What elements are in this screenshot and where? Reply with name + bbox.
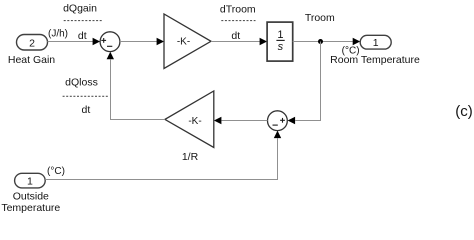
wire port2 to sum1 <box>48 41 94 43</box>
svg-text:dt: dt <box>82 104 91 116</box>
wire integrator to outport 1 <box>293 41 353 43</box>
svg-text:dQloss: dQloss <box>65 76 98 88</box>
wire Troom junction down to sum2 <box>295 42 320 121</box>
outport 1 (Room Temperature) <box>360 35 391 49</box>
svg-text:dt: dt <box>231 30 240 42</box>
arrowhead into sum2 bottom <box>274 131 281 139</box>
svg-text:Troom: Troom <box>305 12 335 24</box>
svg-text:1: 1 <box>373 37 379 49</box>
label dQloss/dt <box>63 76 108 116</box>
svg-text:dt: dt <box>78 30 87 42</box>
svg-text:(J/h): (J/h) <box>48 29 68 40</box>
inport 2 (Heat Gain) <box>17 35 48 51</box>
svg-text:Heat Gain: Heat Gain <box>8 54 55 66</box>
arrowhead into outport <box>353 38 361 45</box>
gain block G2 (-K-, 1/R) <box>165 91 214 148</box>
arrowhead into integrator <box>260 38 268 45</box>
inport 1 (Outside Temperature) <box>15 173 46 188</box>
integrator U1 (1/s) <box>267 22 293 61</box>
gain block G1 (-K-) <box>164 14 211 69</box>
wire outside temp to sum2 bottom <box>45 138 277 179</box>
wire sum1 to gain1 <box>120 41 158 43</box>
svg-text:dTroom: dTroom <box>220 3 256 15</box>
wire sum2 to gain2 <box>222 120 268 122</box>
svg-text:Outside: Outside <box>13 191 49 203</box>
arrowhead into gain1 <box>157 38 165 45</box>
arrowhead into sum2 right <box>288 117 296 124</box>
label dTroom/dt <box>220 3 256 42</box>
label dQgain/dt <box>63 3 103 42</box>
wire gain1 to integrator <box>211 41 260 43</box>
svg-text:(°C): (°C) <box>47 166 65 177</box>
svg-text:2: 2 <box>29 37 35 49</box>
svg-text:Temperature: Temperature <box>1 202 60 214</box>
svg-text:-K-: -K- <box>177 37 190 48</box>
arrowhead into sum1 <box>93 38 101 45</box>
svg-text:1: 1 <box>277 29 283 41</box>
arrowhead into sum1 bottom <box>107 52 114 60</box>
node Troom junction dot <box>318 39 323 44</box>
sum block S1 <box>100 32 120 52</box>
wire gain2 back up to sum1 <box>111 60 165 120</box>
svg-text:(c): (c) <box>455 103 473 120</box>
svg-text:dQgain: dQgain <box>63 3 97 15</box>
arrowhead into gain2 <box>214 117 222 124</box>
sum block S2 <box>268 111 288 131</box>
svg-text:Room Temperature: Room Temperature <box>330 54 420 66</box>
svg-text:-K-: -K- <box>188 116 201 127</box>
svg-text:s: s <box>278 41 284 53</box>
svg-text:1/R: 1/R <box>182 151 199 163</box>
svg-text:1: 1 <box>27 175 33 187</box>
